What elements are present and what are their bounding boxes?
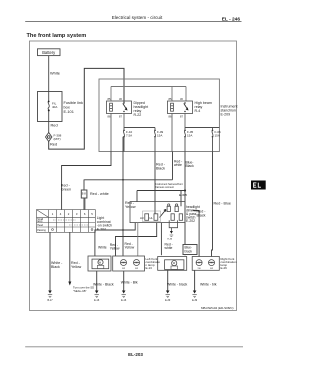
svg-text:3: 3 — [76, 212, 78, 216]
svg-text:white: white — [174, 163, 182, 167]
svg-text:Electrical system - circuit: Electrical system - circuit — [112, 15, 163, 20]
svg-text:E-202: E-202 — [186, 219, 195, 223]
svg-text:87: 87 — [119, 115, 122, 119]
svg-text:E-8: E-8 — [82, 192, 87, 196]
svg-text:MB-DWG04 (ED-S08/C): MB-DWG04 (ED-S08/C) — [201, 306, 234, 310]
svg-text:HL: HL — [150, 216, 154, 220]
svg-text:30: 30 — [180, 97, 183, 101]
svg-text:White - Blk: White - Blk — [121, 281, 138, 285]
svg-text:E-13: E-13 — [146, 266, 153, 270]
svg-text:15A: 15A — [157, 133, 162, 137]
svg-text:Passing: Passing — [37, 229, 46, 232]
svg-text:White: White — [98, 246, 107, 250]
svg-text:R-22: R-22 — [134, 113, 142, 117]
svg-text:E-39: E-39 — [192, 299, 198, 302]
svg-text:black: black — [185, 249, 193, 253]
svg-text:5: 5 — [91, 212, 93, 216]
svg-text:Red: Red — [50, 142, 57, 147]
svg-text:Black: Black — [156, 167, 165, 171]
svg-text:40A: 40A — [52, 105, 57, 109]
svg-text:"SEAL-1B": "SEAL-1B" — [73, 289, 87, 293]
svg-text:Green: Green — [61, 188, 71, 192]
svg-text:Yellow: Yellow — [125, 205, 136, 209]
svg-text:W: W — [99, 261, 102, 265]
svg-text:P: P — [165, 208, 167, 212]
svg-text:W: W — [198, 262, 201, 265]
svg-text:5W: 5W — [122, 268, 125, 270]
svg-text:White - blk: White - blk — [200, 283, 217, 287]
svg-text:30: 30 — [119, 97, 122, 101]
svg-text:86: 86 — [169, 115, 172, 119]
svg-text:Black: Black — [197, 214, 206, 218]
svg-text:(M/T): (M/T) — [54, 137, 61, 141]
svg-text:85: 85 — [169, 97, 172, 101]
svg-text:Black: Black — [186, 164, 195, 168]
svg-text:B-17: B-17 — [47, 299, 53, 302]
svg-text:4: 4 — [60, 212, 62, 216]
svg-text:Red - Blue: Red - Blue — [214, 202, 231, 206]
svg-text:2: 2 — [68, 212, 70, 216]
svg-text:Red - white: Red - white — [90, 192, 109, 196]
svg-text:87: 87 — [180, 115, 183, 119]
svg-text:E-204: E-204 — [97, 227, 106, 231]
svg-text:harness connect: harness connect — [156, 186, 175, 189]
svg-text:white: white — [165, 246, 173, 250]
svg-text:85: 85 — [108, 97, 111, 101]
svg-text:Black: Black — [51, 265, 60, 269]
svg-text:Yellow: Yellow — [71, 265, 82, 269]
svg-text:5W: 5W — [198, 268, 201, 270]
svg-text:5W: 5W — [210, 268, 213, 270]
svg-text:E-101: E-101 — [64, 109, 74, 114]
svg-text:7.5A: 7.5A — [126, 133, 132, 137]
svg-text:The front lamp system: The front lamp system — [27, 33, 87, 39]
svg-text:Red: Red — [51, 123, 58, 128]
svg-text:W: W — [210, 262, 213, 265]
svg-text:E-209: E-209 — [221, 113, 231, 117]
svg-text:86: 86 — [108, 115, 111, 119]
svg-text:E-16: E-16 — [94, 299, 100, 302]
svg-text:Yellow: Yellow — [125, 246, 135, 250]
svg-text:W: W — [173, 261, 176, 265]
svg-text:White - Black: White - Black — [93, 283, 114, 287]
svg-text:E-16: E-16 — [121, 299, 127, 302]
svg-text:HU: HU — [140, 216, 144, 220]
svg-text:6: 6 — [84, 212, 86, 216]
svg-text:E-305: E-305 — [179, 193, 187, 197]
svg-text:E-26: E-26 — [221, 266, 228, 270]
svg-text:15A: 15A — [215, 133, 220, 137]
svg-text:W: W — [122, 262, 125, 265]
svg-text:5W: 5W — [135, 268, 138, 270]
svg-text:EL-203: EL-203 — [128, 352, 143, 357]
svg-text:R-4: R-4 — [195, 109, 201, 113]
svg-text:E-36: E-36 — [168, 239, 173, 241]
svg-text:Head: Head — [37, 224, 43, 227]
svg-text:White - black: White - black — [167, 283, 187, 287]
svg-text:1: 1 — [52, 212, 54, 216]
svg-text:W: W — [135, 262, 138, 265]
svg-text:E-39: E-39 — [165, 299, 171, 302]
svg-text:White: White — [50, 71, 60, 76]
svg-text:Battery: Battery — [42, 50, 56, 55]
svg-text:lamp: lamp — [37, 220, 43, 223]
svg-text:Yellow: Yellow — [110, 247, 120, 251]
svg-text:15A: 15A — [187, 133, 192, 137]
